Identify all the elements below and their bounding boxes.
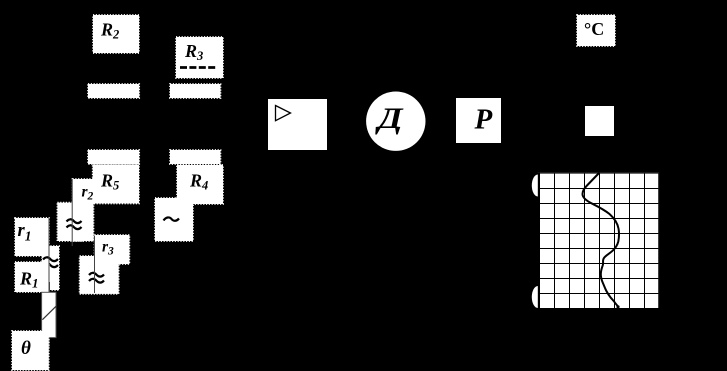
motor D [366,92,425,151]
svg-text:Д: Д [374,102,404,135]
wire bar mid-right [170,150,221,164]
pointer block [585,106,614,136]
wire through r2 column [71,179,73,246]
svg-text:°C: °C [584,19,604,39]
paper border [538,172,660,174]
rheostat r3 [95,235,130,264]
slider symbol of r2 [57,203,83,241]
resistor R4 [177,165,223,204]
roller bottom [532,286,538,308]
resistor R1 [15,262,49,292]
svg-text:θ: θ [21,338,31,359]
scale label °C [577,15,615,46]
wire bar top-right [170,84,221,98]
wire bar top-left [88,84,139,98]
wire R1 to potentiometer [49,282,51,292]
curve end dot [616,305,619,308]
potentiometer (slider box) [42,292,56,337]
recorded curve [583,173,619,308]
svg-text:P: P [474,104,493,136]
rheostat r2 [73,179,94,241]
amplifier U [268,99,327,150]
grid vertical lines [555,172,645,309]
AC source ~ [155,198,193,241]
chart recorder paper [532,172,660,309]
resistor R5 [93,165,139,204]
roller top [532,175,538,197]
slider symbol of r1 [42,246,59,290]
wire bar mid-left [88,150,139,164]
wire potentiometer to theta sensor [48,338,50,348]
wire through r3 column [94,236,96,293]
resistor R2 [93,15,139,53]
grid horizontal lines [538,189,660,294]
wire through r1/R1 column [48,218,50,292]
slider symbol of r3 [80,256,119,294]
resistor R3 [176,37,223,78]
sensor theta [12,331,49,370]
rheostat r1 [15,218,49,256]
reducer P [456,98,501,143]
